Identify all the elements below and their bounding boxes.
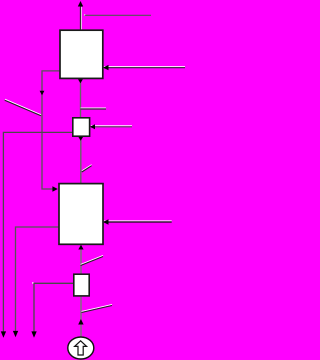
- small box2 (small lower process box): [74, 274, 89, 296]
- arrowhead up into box2 bottom: [78, 245, 83, 250]
- box2 (large lower process box): [59, 184, 103, 245]
- wire: long left line from small box1 to bottom arrow: [3, 132, 72, 332]
- wire: box2 left output down to bottom arrow: [16, 227, 60, 332]
- arrowhead down at bottom of long left line: [1, 331, 6, 337]
- up-arrow glyph inside ellipse: [75, 341, 87, 355]
- arrowhead down at bottom of box2 left line: [13, 331, 18, 337]
- arrowhead down mid-wire on left loop: [40, 91, 45, 96]
- arrowhead left into box1 right edge: [103, 65, 109, 70]
- box1 (large top process box): [60, 30, 103, 78]
- arrowhead right into box2 left edge: [52, 186, 57, 191]
- arrowhead up mid-wire above ellipse: [78, 319, 83, 325]
- wire: right input into small box1: [91, 126, 132, 127]
- annotation line pointing at left loop: [5, 99, 41, 116]
- arrowhead left into small box1 right edge: [90, 124, 95, 129]
- arrowhead down at bottom of small box2 left line: [31, 331, 36, 337]
- wire: top-right horizontal line: [84, 14, 151, 16]
- wire: box1 bottom to small box1 top: [80, 79, 82, 118]
- wire: right input into box2: [104, 221, 172, 222]
- wire: small box2 left output down to bottom arrow: [32, 282, 74, 332]
- wire: ellipse up to small box2: [80, 296, 82, 337]
- arrowhead down below box1: [78, 79, 83, 83]
- wire: right input into box1: [104, 67, 185, 68]
- annotation line above small box2: [81, 255, 103, 265]
- small box1 (small mid process box): [73, 118, 90, 136]
- ellipse terminator: [68, 337, 94, 359]
- wire: left loop from box1 to box2: [42, 71, 60, 189]
- annotation tick near box2 top: [82, 165, 92, 172]
- arrowhead up at top: [78, 1, 83, 7]
- wire: small box1 bottom to box2 top: [80, 136, 82, 183]
- wire: small box2 up to box2: [80, 248, 82, 274]
- wire: short branch right at y109: [81, 108, 107, 109]
- wire: top output line from box1: [81, 5, 82, 30]
- arrowhead down below small box1: [78, 137, 83, 141]
- annotation line below small box2: [82, 304, 113, 312]
- arrowhead left into box2 right edge: [103, 219, 109, 224]
